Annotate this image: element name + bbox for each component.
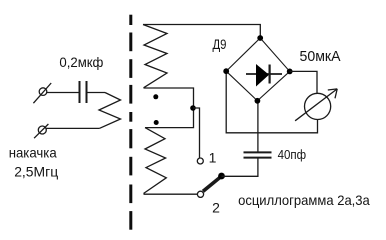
wire switch to capacitor C2 [222, 158, 258, 177]
svg-text:Д9: Д9 [213, 36, 227, 52]
wire X1 to C1 [47, 92, 79, 94]
svg-text:накачка: накачка [9, 145, 57, 161]
svg-text:40пф: 40пф [278, 148, 307, 162]
wire tap to contact 1 [193, 108, 200, 158]
transformer core (dashed line) [129, 15, 132, 230]
svg-text:осциллограмма 2а,3а: осциллограмма 2а,3а [238, 192, 370, 208]
switch contact 2 [197, 191, 203, 197]
secondary winding L2 upper (zigzag) [143, 25, 167, 88]
svg-text:0,2мкф: 0,2мкф [59, 54, 103, 70]
input terminal X2 [34, 124, 48, 138]
winding polarity dot B [154, 120, 159, 125]
input terminal X1 [33, 83, 51, 103]
bridge node top [257, 35, 263, 41]
wire bridge right to meter [290, 71, 317, 93]
svg-text:1: 1 [209, 150, 217, 166]
bridge node right [287, 69, 293, 75]
primary winding L1 (zigzag) [99, 93, 121, 129]
secondary winding L3 lower (zigzag) [144, 128, 167, 194]
wire top rail to bridge [143, 25, 260, 39]
svg-text:50мкА: 50мкА [300, 48, 341, 65]
switch contact 1 [197, 158, 203, 164]
meter PA1 [295, 89, 337, 121]
diode bridge VD1 diamond [226, 38, 290, 101]
svg-text:2,5Мгц: 2,5Мгц [14, 163, 58, 179]
tap box wires [144, 88, 194, 128]
tap junction dot [190, 105, 196, 111]
wire winding bottom to contact 2 [144, 193, 198, 195]
svg-text:2: 2 [212, 200, 220, 216]
wire C2 to bridge bottom [257, 101, 259, 152]
capacitor C2 plates [244, 152, 272, 157]
switch arm SA1 [203, 173, 225, 192]
winding polarity dot A [153, 94, 158, 99]
wire C1 to primary winding [88, 92, 106, 94]
bridge node left [223, 68, 229, 74]
bridge node bottom [255, 98, 261, 104]
wire meter bottom to bridge left [226, 74, 317, 133]
wire X2 to primary winding [46, 127, 100, 129]
capacitor C1 plates [80, 81, 87, 103]
bridge diode symbol [246, 64, 282, 87]
